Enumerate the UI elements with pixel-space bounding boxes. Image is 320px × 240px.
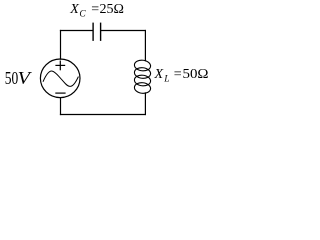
svg-text:V: V [18, 68, 32, 88]
svg-text:X: X [154, 67, 164, 82]
svg-text:=: = [91, 2, 99, 17]
svg-text:C: C [79, 10, 86, 20]
svg-text:=: = [174, 67, 182, 82]
svg-text:50Ω: 50Ω [183, 67, 209, 82]
svg-text:50: 50 [5, 68, 19, 88]
svg-text:X: X [69, 2, 79, 17]
svg-text:L: L [163, 75, 169, 85]
svg-text:25Ω: 25Ω [100, 2, 125, 17]
